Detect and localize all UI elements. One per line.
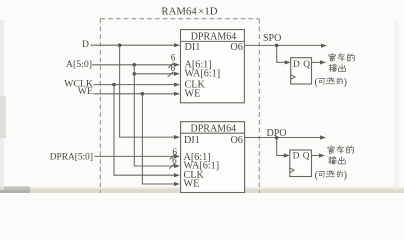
svg-text:DI1: DI1 (185, 42, 201, 53)
node SPO (275, 44, 279, 48)
svg-text:D: D (293, 152, 300, 162)
wire DPO to FF2 D (277, 138, 287, 156)
FF1 clock triangle (291, 75, 295, 80)
bottom-left grey scan patch (0, 187, 30, 194)
svg-text:WE: WE (184, 179, 200, 190)
wire WE to DPRAM1 WE (94, 93, 177, 95)
svg-text:WE: WE (185, 88, 201, 99)
svg-text:DPRAM64: DPRAM64 (191, 32, 237, 43)
U1 title separator (181, 40, 245, 42)
svg-text:): ) (344, 170, 347, 181)
node A drop branch (133, 72, 137, 76)
wire FF1 Q out (312, 61, 323, 63)
svg-text:DI1: DI1 (184, 135, 200, 146)
bottom scan band (0, 187, 404, 190)
label registered output (bottom) line2 (329, 157, 337, 164)
svg-text:WA[6:1]: WA[6:1] (185, 68, 221, 79)
dashed RAM64x1D boundary box (100, 19, 259, 193)
node on WE wire (141, 92, 145, 96)
node on D wire (118, 43, 122, 47)
wire A drop to WA pins (134, 65, 176, 166)
left edge scan smudge (0, 20, 4, 190)
DPRAM64 U2 block (181, 122, 245, 193)
bus width 6 slash on WA[6:1] of U2 (169, 163, 175, 168)
bus width 6 slash on A[6:1] of U2 (170, 154, 176, 159)
wire D drop to DPRAM2 DI1 (120, 45, 177, 137)
svg-text:Q: Q (303, 60, 310, 70)
bus width 6 slash on A[6:1] of U1 (168, 63, 174, 68)
svg-text:DPRAM64: DPRAM64 (191, 124, 237, 135)
svg-text:Q: Q (303, 152, 310, 162)
DPRAM64 U1 block (181, 30, 245, 103)
wire WCLK drop to DPRAM2 CLK (114, 85, 177, 176)
svg-text:SPO: SPO (263, 33, 281, 44)
svg-text:O6: O6 (230, 135, 242, 146)
svg-text:6: 6 (171, 64, 176, 74)
svg-text:WE: WE (78, 86, 93, 97)
svg-text:D: D (293, 60, 300, 70)
node on WCLK wire (112, 83, 116, 87)
label registered output (top) line1 (329, 53, 336, 61)
FF2 clock triangle (290, 168, 294, 173)
wire FF2 Q out (312, 155, 322, 157)
svg-text:DPRA[5:0]: DPRA[5:0] (50, 152, 93, 162)
svg-text:O6: O6 (230, 42, 242, 53)
U2 title separator (181, 132, 245, 134)
node DPO (275, 136, 279, 140)
wire SPO to FF1 D (277, 45, 288, 62)
svg-text:6: 6 (172, 157, 177, 167)
wire A branch to DPRAM1 WA[6:1] (134, 73, 176, 75)
wire DPRA to DPRAM2 A[6:1] (95, 155, 177, 157)
svg-text:): ) (344, 77, 347, 88)
node on A wire (133, 63, 137, 67)
wire A to DPRAM1 A[6:1] (92, 64, 177, 66)
label registered output (bottom) line1 (328, 146, 335, 154)
D flip-flop FF2 (290, 150, 312, 177)
bus width 6 slash on WA[6:1] of U1 (168, 72, 174, 77)
wire WE drop to DPRAM2 WE (142, 94, 176, 184)
wire WCLK to DPRAM1 CLK (94, 84, 177, 86)
D flip-flop FF1 (291, 58, 312, 84)
wire O6 U1 to SPO output (244, 44, 323, 46)
wire O6 U2 to DPO output (245, 137, 323, 139)
svg-text:A[5:0]: A[5:0] (66, 59, 92, 70)
wire D to DPRAM1 DI1 (91, 44, 177, 46)
svg-text:D: D (82, 39, 89, 50)
svg-text:6: 6 (171, 53, 176, 63)
label registered output (top) line2 (329, 64, 337, 71)
svg-text:RAM64×1D: RAM64×1D (161, 5, 217, 17)
